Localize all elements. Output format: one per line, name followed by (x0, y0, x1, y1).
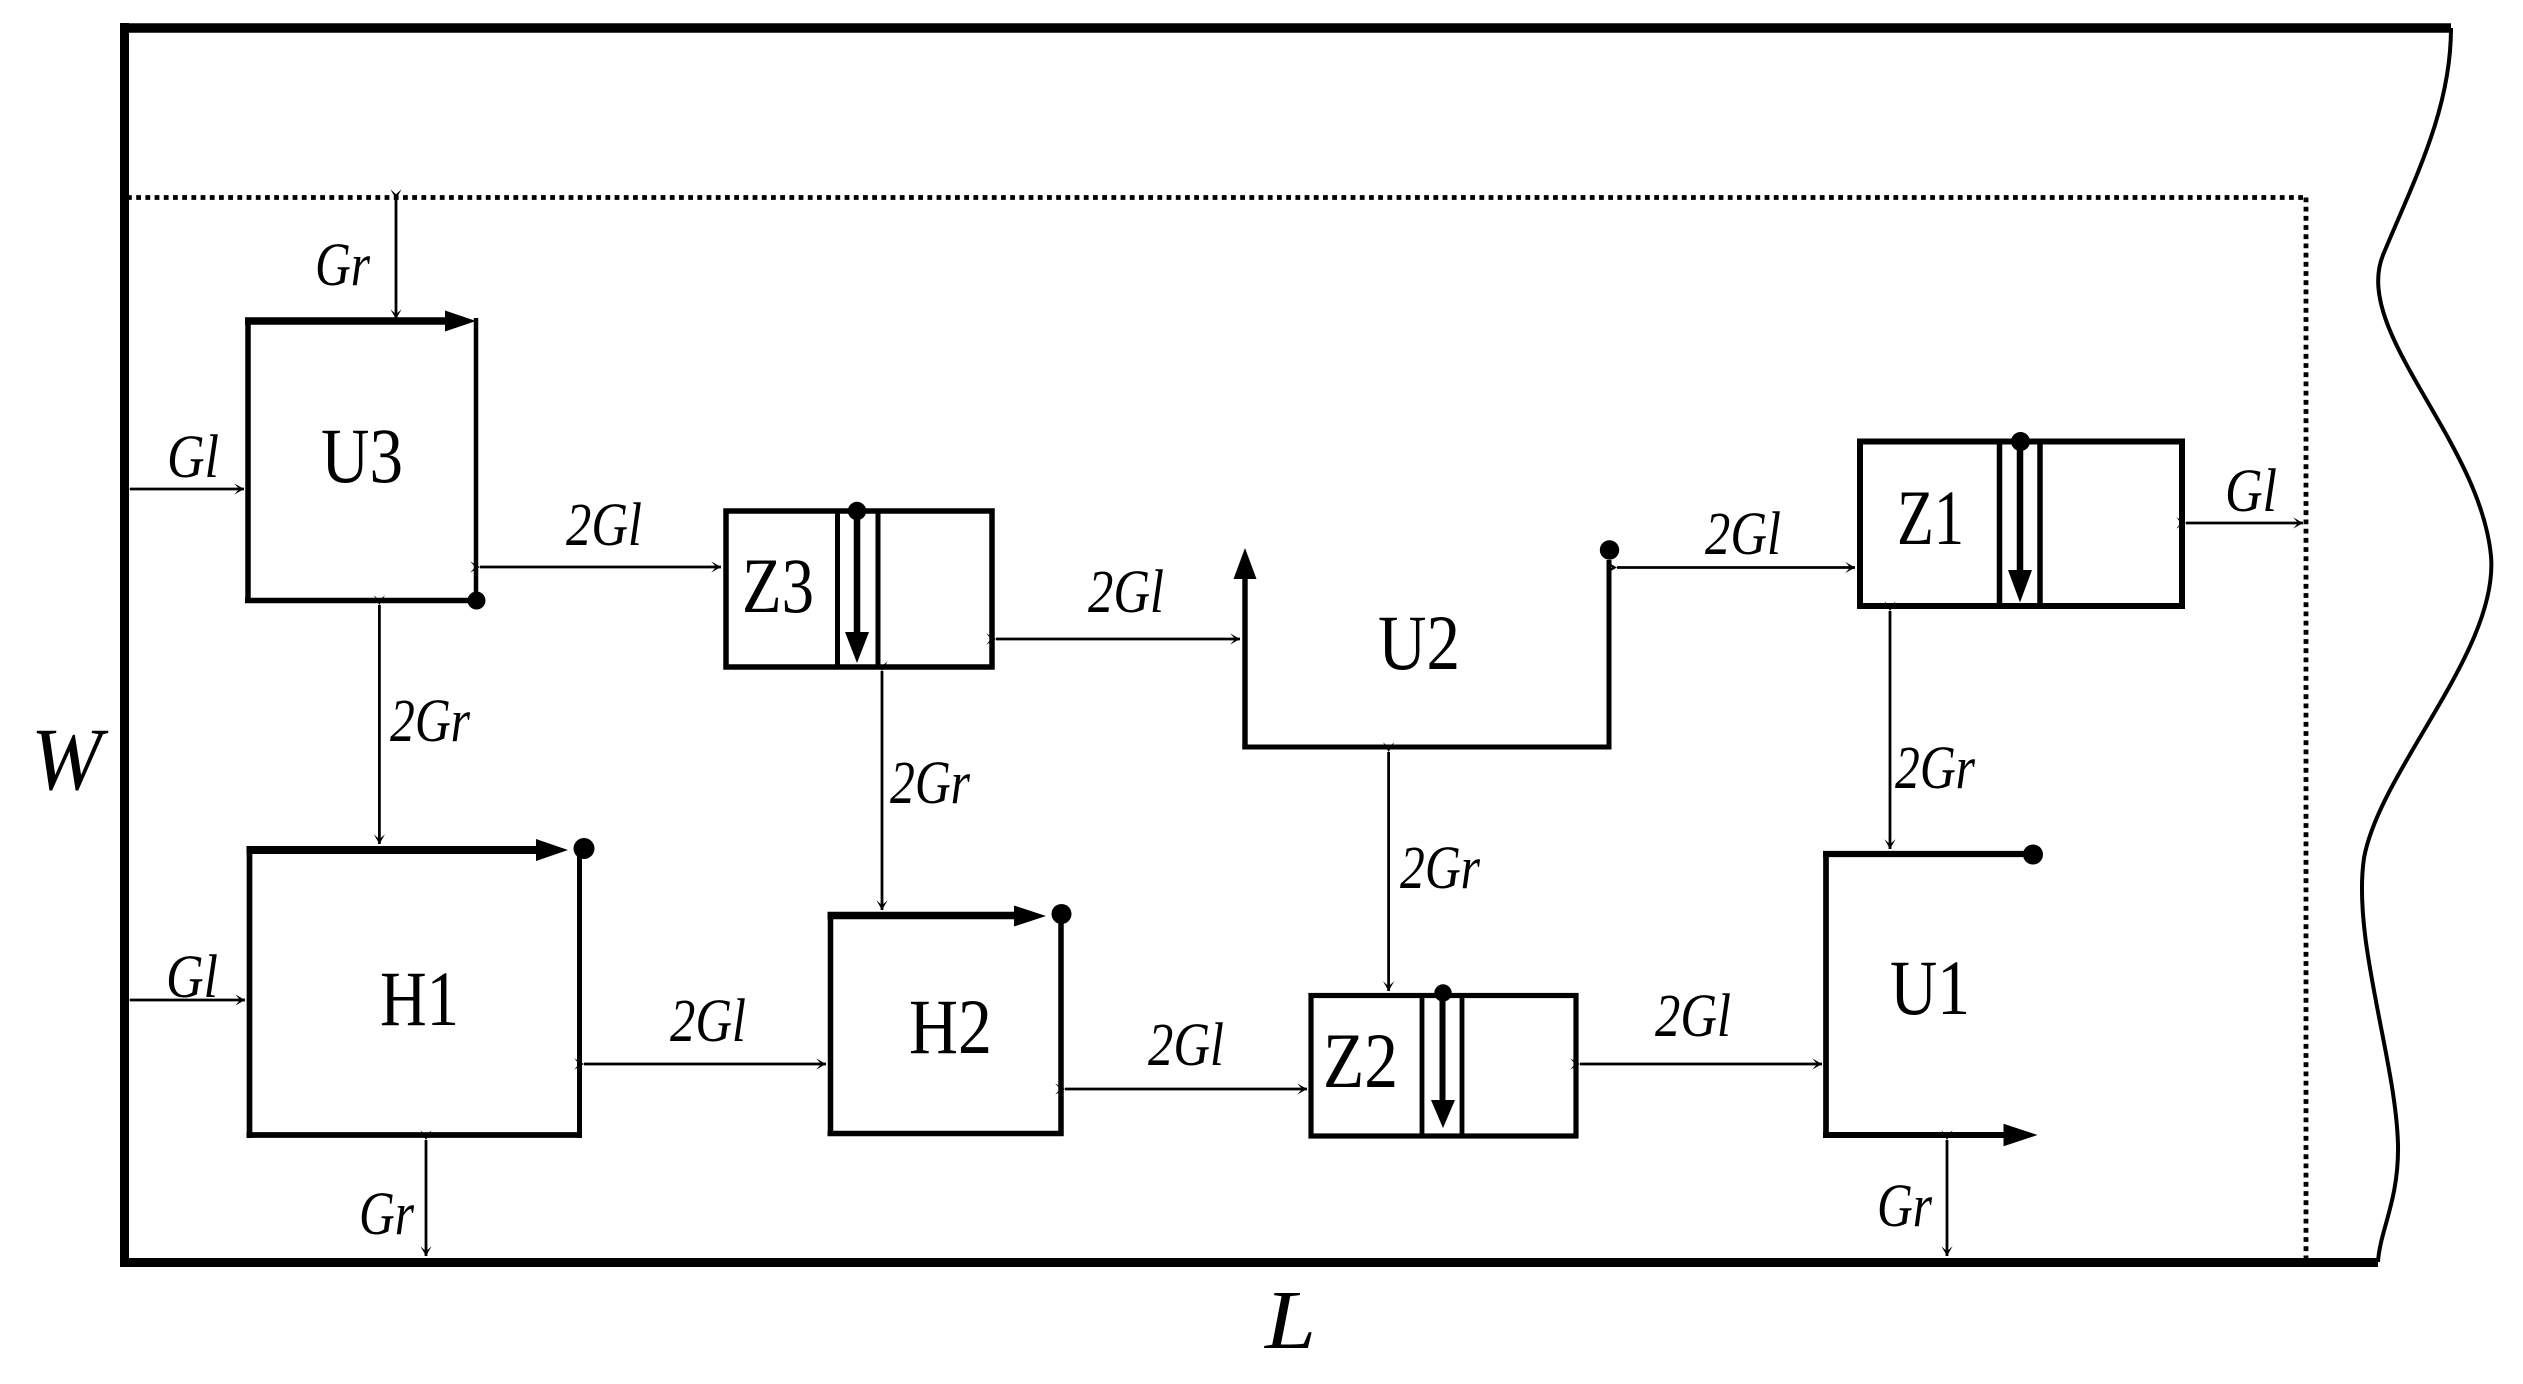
block U3 (245, 311, 486, 610)
svg-text:U2: U2 (1378, 599, 1460, 686)
svg-text:H1: H1 (380, 955, 459, 1042)
svg-text:Z3: Z3 (742, 542, 814, 629)
svg-text:Gr: Gr (359, 1181, 414, 1248)
svg-text:2Gl: 2Gl (566, 492, 642, 559)
svg-text:Gr: Gr (1877, 1173, 1932, 1240)
dotted guide line horizontal (127, 195, 2306, 200)
svg-text:Gl: Gl (167, 424, 219, 491)
svg-text:2Gr: 2Gr (390, 688, 470, 755)
svg-text:2Gl: 2Gl (1705, 501, 1781, 568)
block Z1 (1860, 432, 2182, 606)
svg-text:Z1: Z1 (1897, 474, 1964, 561)
dimension arrow Gr (dotted line to U3 top) (395, 199, 398, 319)
dotted guide line vertical (2304, 198, 2309, 1259)
svg-text:U3: U3 (321, 412, 403, 499)
svg-text:U1: U1 (1890, 944, 1970, 1031)
dimension arrow 2Gl (U3 to Z3) (480, 566, 721, 569)
dimension arrow 2Gr (Z1 to U1) (1889, 611, 1892, 849)
svg-text:2Gl: 2Gl (1148, 1012, 1224, 1079)
block Z3 (726, 502, 992, 667)
dimension arrow Gl (border to H1) (130, 999, 245, 1002)
svg-text:Gl: Gl (2225, 458, 2277, 525)
block H2 (828, 904, 1072, 1136)
dimension arrow 2Gl (U2 to Z1) (1617, 566, 1855, 569)
svg-text:Z2: Z2 (1323, 1017, 1398, 1104)
dimension arrow Gr (U1 to bottom border) (1946, 1140, 1949, 1256)
svg-text:2Gr: 2Gr (1895, 735, 1975, 802)
outer boundary top edge (120, 23, 2451, 33)
block U1 (1823, 845, 2043, 1147)
svg-text:Gr: Gr (315, 232, 370, 299)
wavy break edge (right) (2362, 28, 2491, 1262)
block U2 (1234, 540, 1620, 749)
svg-text:2Gl: 2Gl (1088, 559, 1164, 626)
svg-text:2Gr: 2Gr (1400, 835, 1480, 902)
outer boundary left edge (120, 23, 129, 1267)
svg-text:W: W (31, 711, 109, 809)
svg-text:L: L (1264, 1274, 1316, 1367)
dimension arrow 2Gr (Z3 to H2) (881, 671, 884, 910)
svg-text:2Gl: 2Gl (1655, 983, 1731, 1050)
block Z2 (1311, 984, 1576, 1136)
svg-text:2Gr: 2Gr (890, 750, 970, 817)
svg-text:Gl: Gl (166, 944, 218, 1011)
svg-text:H2: H2 (909, 983, 992, 1070)
dimension arrow 2Gl (H1 to H2) (584, 1063, 826, 1066)
dimension arrow 2Gl (H2 to Z2) (1065, 1088, 1307, 1091)
dimension arrow 2Gr (U3 to H1) (378, 605, 381, 844)
dimension arrow 2Gl (Z3 to U2) (996, 638, 1240, 641)
dimension arrow Gl (Z1 to dotted line) (2186, 522, 2303, 525)
svg-text:2Gl: 2Gl (670, 988, 746, 1055)
block H1 (247, 838, 595, 1138)
dimension arrow Gr (H1 to bottom border) (425, 1140, 428, 1256)
outer boundary bottom edge (120, 1258, 2378, 1267)
dimension arrow 2Gr (U2 to Z2) (1387, 752, 1390, 991)
dimension arrow Gl (border to U3) (130, 488, 244, 491)
dimension arrow 2Gl (Z2 to U1) (1580, 1063, 1822, 1066)
